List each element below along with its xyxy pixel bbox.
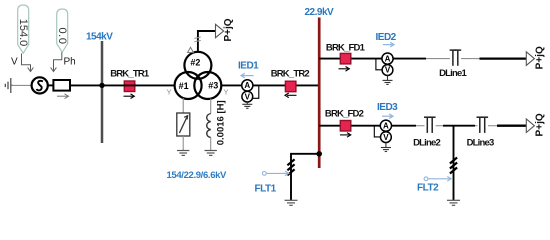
svg-text:IED1: IED1 (238, 61, 259, 72)
IED1 voltage tap wire (253, 85, 259, 98)
svg-text:#3: #3 (208, 81, 218, 91)
svg-text:154.0: 154.0 (17, 19, 29, 47)
svg-text:V: V (11, 57, 18, 68)
transformer winding #3 (194, 72, 221, 99)
wire winding #3 to inductor (210, 99, 212, 114)
voltmeter IED1 V (242, 91, 253, 102)
wire DLine3 to P+jQ (497, 125, 526, 127)
IED2 direction arrow (383, 42, 394, 47)
wire source to impedance (48, 84, 54, 86)
svg-text:154kV: 154kV (86, 32, 113, 43)
current direction arrow under resistor (57, 94, 69, 99)
svg-text:BRK_TR2: BRK_TR2 (271, 69, 310, 80)
wire impedance to bus (70, 84, 103, 86)
transmission line DLine3 (477, 117, 489, 133)
svg-text:IED3: IED3 (377, 102, 398, 113)
svg-text:P+jQ: P+jQ (223, 18, 234, 41)
node on bus B2 (FLT1 tap) (316, 151, 322, 157)
svg-text:P+jQ: P+jQ (535, 113, 546, 136)
IED3 voltage tap wire (374, 126, 380, 137)
grounding inductor (207, 114, 211, 138)
Ph probe arrow (51, 52, 62, 71)
IED3 direction arrow (382, 114, 393, 119)
fault FLT2 (450, 158, 457, 174)
wire IED1 to bus B2 (253, 84, 319, 86)
ground (inductor) (205, 151, 217, 156)
svg-text:A: A (244, 81, 250, 90)
bus B1 (101, 41, 104, 143)
lead wire DLine3 right (488, 125, 497, 127)
breaker BRK_FD1 (326, 43, 366, 72)
svg-text:V: V (383, 133, 389, 142)
ground (IED2) (383, 75, 393, 84)
wire DLine2 to DLine3 (443, 125, 475, 127)
transformer winding #2 (184, 52, 211, 79)
transformer T1 three-winding (175, 52, 222, 99)
svg-text:A: A (383, 121, 389, 130)
P+jQ meter (transformer) (216, 18, 234, 41)
voltmeter IED3 V (381, 132, 392, 143)
measurement ticks (194, 37, 201, 42)
wire bus to transformer (102, 84, 175, 86)
lead wire DLine1 right (461, 58, 480, 60)
svg-text:FLT2: FLT2 (417, 183, 439, 194)
svg-text:Ph: Ph (64, 57, 76, 68)
bus B2 (318, 18, 321, 169)
svg-text:FLT1: FLT1 (255, 184, 277, 195)
source S1 (32, 77, 48, 93)
feeder 1 wire bus to IED2 (319, 58, 382, 60)
svg-text:0.0: 0.0 (56, 27, 68, 44)
fault FLT1 (287, 159, 294, 175)
node on bus B1 (99, 83, 104, 88)
lead wire DLine2 right (436, 125, 443, 127)
svg-text:DLine3: DLine3 (467, 138, 494, 149)
ground (source side, pointing left) (5, 78, 13, 93)
svg-text:IED2: IED2 (376, 32, 397, 43)
P+jQ meter (feeder 2) (526, 113, 545, 136)
svg-text:BRK_TR1: BRK_TR1 (110, 69, 150, 80)
svg-text:V: V (245, 92, 251, 101)
wire IED2 to DLine1 (393, 58, 426, 60)
svg-text:DLine2: DLine2 (413, 138, 440, 149)
P+jQ meter (feeder 1) (526, 46, 545, 69)
wire feeder2 to fault FLT2 (453, 126, 455, 201)
feeder 2 wire bus to IED3 (319, 125, 380, 127)
FLT2 control arrow (424, 177, 451, 182)
wire bus B2 to fault FLT1 (291, 154, 319, 201)
ground (FLT1) (285, 200, 298, 205)
wire DLine1 to P+jQ (480, 57, 527, 59)
ground (IED3) (381, 143, 391, 152)
svg-text:Y: Y (166, 88, 171, 97)
svg-text:P+jQ: P+jQ (535, 46, 546, 69)
transformer winding #1 (175, 72, 202, 99)
transmission line DLine2 (424, 117, 436, 133)
lead wire DLine2 left (416, 125, 425, 127)
voltmeter IED2 V (382, 65, 393, 76)
ammeter IED2 A (382, 53, 393, 64)
IED2 voltage tap wire (376, 59, 382, 70)
svg-text:Y: Y (223, 88, 228, 97)
surge arrester (177, 113, 190, 136)
svg-text:A: A (385, 54, 391, 63)
source impedance resistor (53, 80, 70, 91)
transmission line DLine1 (450, 50, 462, 66)
wire arrester to ground (182, 136, 184, 151)
svg-text:BRK_FD2: BRK_FD2 (325, 108, 364, 119)
wire winding #1 to arrester (182, 98, 184, 113)
lead wire DLine3 left (475, 125, 478, 127)
ground (FLT2) (447, 200, 460, 205)
wire winding #3 to IED1 (221, 84, 242, 86)
svg-text:154/22.9/6.6kV: 154/22.9/6.6kV (167, 170, 228, 181)
breaker BRK_TR2 (271, 69, 310, 98)
breaker BRK_FD2 (325, 108, 364, 137)
svg-text:BRK_FD1: BRK_FD1 (326, 43, 366, 54)
V probe arrow (22, 54, 34, 72)
wire ground to source (12, 84, 32, 86)
wire inductor to ground (210, 138, 212, 151)
svg-text:#1: #1 (179, 81, 189, 91)
ammeter IED1 A (242, 80, 253, 91)
wire IED3 to DLine2 (392, 125, 417, 127)
svg-text:DLine1: DLine1 (439, 68, 467, 79)
ammeter IED3 A (380, 120, 391, 131)
ground (IED1) (242, 102, 252, 108)
svg-text:0.0016 [H]: 0.0016 [H] (215, 100, 226, 145)
signal meter capsule V=154.0 (17, 5, 29, 53)
IED1 direction arrow (241, 73, 254, 78)
FLT1 control arrow (262, 171, 288, 176)
svg-text:22.9kV: 22.9kV (305, 7, 335, 18)
svg-text:V: V (385, 66, 391, 75)
wire transformer #2 to P+jQ meter (198, 31, 216, 52)
delta symbol (188, 47, 194, 52)
ground (arrester) (177, 151, 189, 156)
breaker BRK_TR1 (110, 69, 150, 99)
signal meter capsule Ph=0.0 (56, 9, 68, 52)
svg-text:#2: #2 (190, 57, 200, 67)
lead wire DLine1 left (426, 58, 450, 60)
